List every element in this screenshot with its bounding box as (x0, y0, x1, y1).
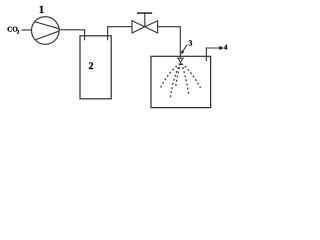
svg-text:4: 4 (224, 44, 228, 52)
svg-text:2: 2 (89, 61, 94, 72)
svg-text:3: 3 (189, 38, 193, 47)
svg-text:2: 2 (17, 29, 20, 35)
svg-text:1: 1 (39, 4, 45, 16)
